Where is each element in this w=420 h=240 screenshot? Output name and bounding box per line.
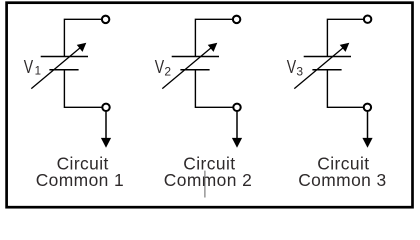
variable voltage source V3 (battery plates + diagonal arrow) [294, 43, 351, 89]
wire: bottom lead of V2 to lower terminal [195, 70, 233, 107]
ground arrow (circuit common 3) [362, 112, 372, 148]
variable voltage source V1 (battery plates + diagonal arrow) [31, 43, 88, 89]
svg-text:3: 3 [296, 65, 303, 79]
wire: bottom lead of V3 to lower terminal [327, 70, 364, 107]
bottom terminal (open circle) circuit 3 [364, 104, 371, 111]
svg-text:2: 2 [164, 65, 171, 79]
bottom terminal (open circle) circuit 1 [102, 104, 109, 111]
bottom terminal (open circle) circuit 2 [233, 104, 240, 111]
wire: top lead of V1 to positive terminal [64, 19, 101, 56]
svg-text:1: 1 [35, 66, 41, 78]
label Circuit Common 3 [298, 153, 386, 190]
wire: bottom lead of V1 to lower terminal [64, 70, 102, 107]
label Circuit Common 2 [164, 153, 252, 190]
svg-text:Common 1: Common 1 [36, 170, 124, 190]
svg-text:Common 3: Common 3 [298, 170, 386, 190]
label V3 [287, 57, 304, 78]
variable voltage source V2 (battery plates + diagonal arrow) [162, 43, 219, 89]
wire: top lead of V2 to positive terminal [195, 19, 232, 56]
label V1 [24, 57, 41, 77]
ground arrow (circuit common 1) [101, 112, 111, 148]
top terminal (open circle) circuit 1 [102, 16, 109, 23]
top terminal (open circle) circuit 3 [364, 16, 371, 23]
svg-text:Common 2: Common 2 [164, 170, 252, 190]
label Circuit Common 1 [36, 153, 124, 190]
svg-text:V: V [155, 57, 164, 77]
wire: top lead of V3 to positive terminal [327, 19, 364, 56]
top terminal (open circle) circuit 2 [233, 16, 240, 23]
svg-text:V: V [24, 57, 33, 77]
ground arrow (circuit common 2) [232, 112, 242, 148]
label V2 [155, 57, 172, 78]
text cursor artifact over Common 2 [204, 171, 206, 198]
svg-text:V: V [287, 57, 296, 77]
